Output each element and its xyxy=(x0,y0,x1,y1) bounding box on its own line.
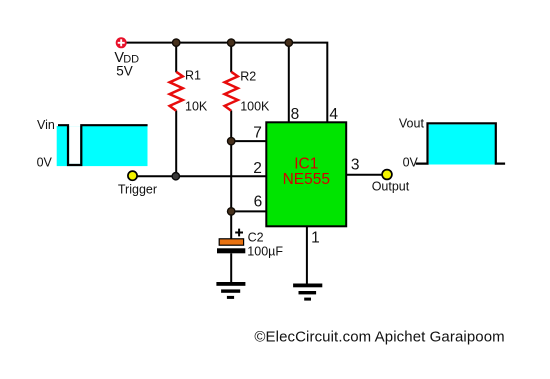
svg-text:R1: R1 xyxy=(185,69,201,83)
svg-text:5V: 5V xyxy=(116,64,133,79)
label 10K xyxy=(185,100,208,114)
label Vout xyxy=(399,117,425,131)
node: pin 6 junction xyxy=(228,208,235,215)
pin 2 label xyxy=(253,160,262,177)
pin 6 label xyxy=(254,194,263,211)
label Output xyxy=(372,179,410,193)
svg-text:8: 8 xyxy=(291,106,300,123)
label C2 xyxy=(248,231,264,245)
node: rail junction at R2 xyxy=(228,39,235,46)
label 0V (input) xyxy=(37,156,53,170)
resistor R2 xyxy=(225,72,238,111)
pin 4 label xyxy=(329,106,338,123)
ground under C2 xyxy=(216,282,245,299)
svg-text:1: 1 xyxy=(311,230,320,247)
wire: pin 7 connection from R2 line to IC xyxy=(231,140,266,142)
svg-text:0V: 0V xyxy=(37,156,53,170)
svg-text:7: 7 xyxy=(253,125,262,142)
node: trigger junction xyxy=(172,173,179,180)
wire: pin 1 lead to ground xyxy=(306,226,308,284)
power VDD terminal xyxy=(116,37,127,48)
svg-text:Vin: Vin xyxy=(37,118,55,132)
op-amp/timer IC1 NE555 xyxy=(266,122,346,226)
node Vout waveform xyxy=(416,123,505,164)
label Vin xyxy=(37,118,55,132)
wire: R2 top lead xyxy=(230,43,232,73)
svg-text:100µF: 100µF xyxy=(247,245,283,259)
svg-text:Trigger: Trigger xyxy=(118,183,157,197)
capacitor C2 xyxy=(217,238,245,253)
svg-text:0V: 0V xyxy=(403,156,419,170)
svg-text:2: 2 xyxy=(253,160,262,177)
svg-text:IC1: IC1 xyxy=(294,156,318,173)
wire: R2 bottom lead down through pins 7 and 6 to C2 xyxy=(230,111,232,240)
wire: trigger line to pin 2 xyxy=(137,175,266,177)
svg-text:R2: R2 xyxy=(240,69,256,83)
svg-text:10K: 10K xyxy=(185,100,208,114)
svg-text:4: 4 xyxy=(329,106,338,123)
node: rail junction at pin 8 xyxy=(285,39,292,46)
node: pin 7 junction xyxy=(228,137,235,144)
label 100uF xyxy=(247,245,283,259)
wire: R1 bottom lead down to trigger node xyxy=(175,111,177,177)
label VDD xyxy=(114,50,139,66)
svg-text:Vout: Vout xyxy=(399,117,425,131)
svg-text:3: 3 xyxy=(351,157,360,174)
wire: R1 top lead xyxy=(175,43,177,73)
copyright text xyxy=(254,328,504,345)
node Vin waveform xyxy=(57,125,148,166)
terminal: Output xyxy=(382,170,392,180)
wire: pin 8 drop from rail to IC top xyxy=(288,43,290,123)
label 0V (output) xyxy=(403,156,419,170)
label 5V xyxy=(116,64,133,79)
pin 7 label xyxy=(253,125,262,142)
terminal: Trigger input xyxy=(128,171,137,180)
label Trigger xyxy=(118,183,157,197)
pin 1 label xyxy=(311,230,320,247)
svg-text:C2: C2 xyxy=(248,231,264,245)
label 100K xyxy=(240,100,270,114)
svg-text:Output: Output xyxy=(372,179,410,193)
label R2 xyxy=(240,69,256,83)
wire: pin 6 connection from R2 line to IC xyxy=(231,210,266,212)
svg-text:100K: 100K xyxy=(240,100,270,114)
wire: C2 bottom lead to ground xyxy=(230,253,232,282)
resistor R1 xyxy=(170,72,183,111)
label + polarity xyxy=(235,229,243,237)
svg-text:6: 6 xyxy=(254,194,263,211)
wire: pin 3 output lead xyxy=(346,174,382,176)
node: rail junction at R1 xyxy=(173,39,180,46)
label R1 xyxy=(185,69,201,83)
ground under pin 1 xyxy=(293,284,322,301)
wire: top supply rail from VDD to pin-4 corner xyxy=(126,43,327,123)
pin 3 label xyxy=(351,157,360,174)
pin 8 label xyxy=(291,106,300,123)
svg-text:NE555: NE555 xyxy=(283,171,330,188)
svg-text:©ElecCircuit.com Apichet Garai: ©ElecCircuit.com Apichet Garaipoom xyxy=(254,328,504,345)
